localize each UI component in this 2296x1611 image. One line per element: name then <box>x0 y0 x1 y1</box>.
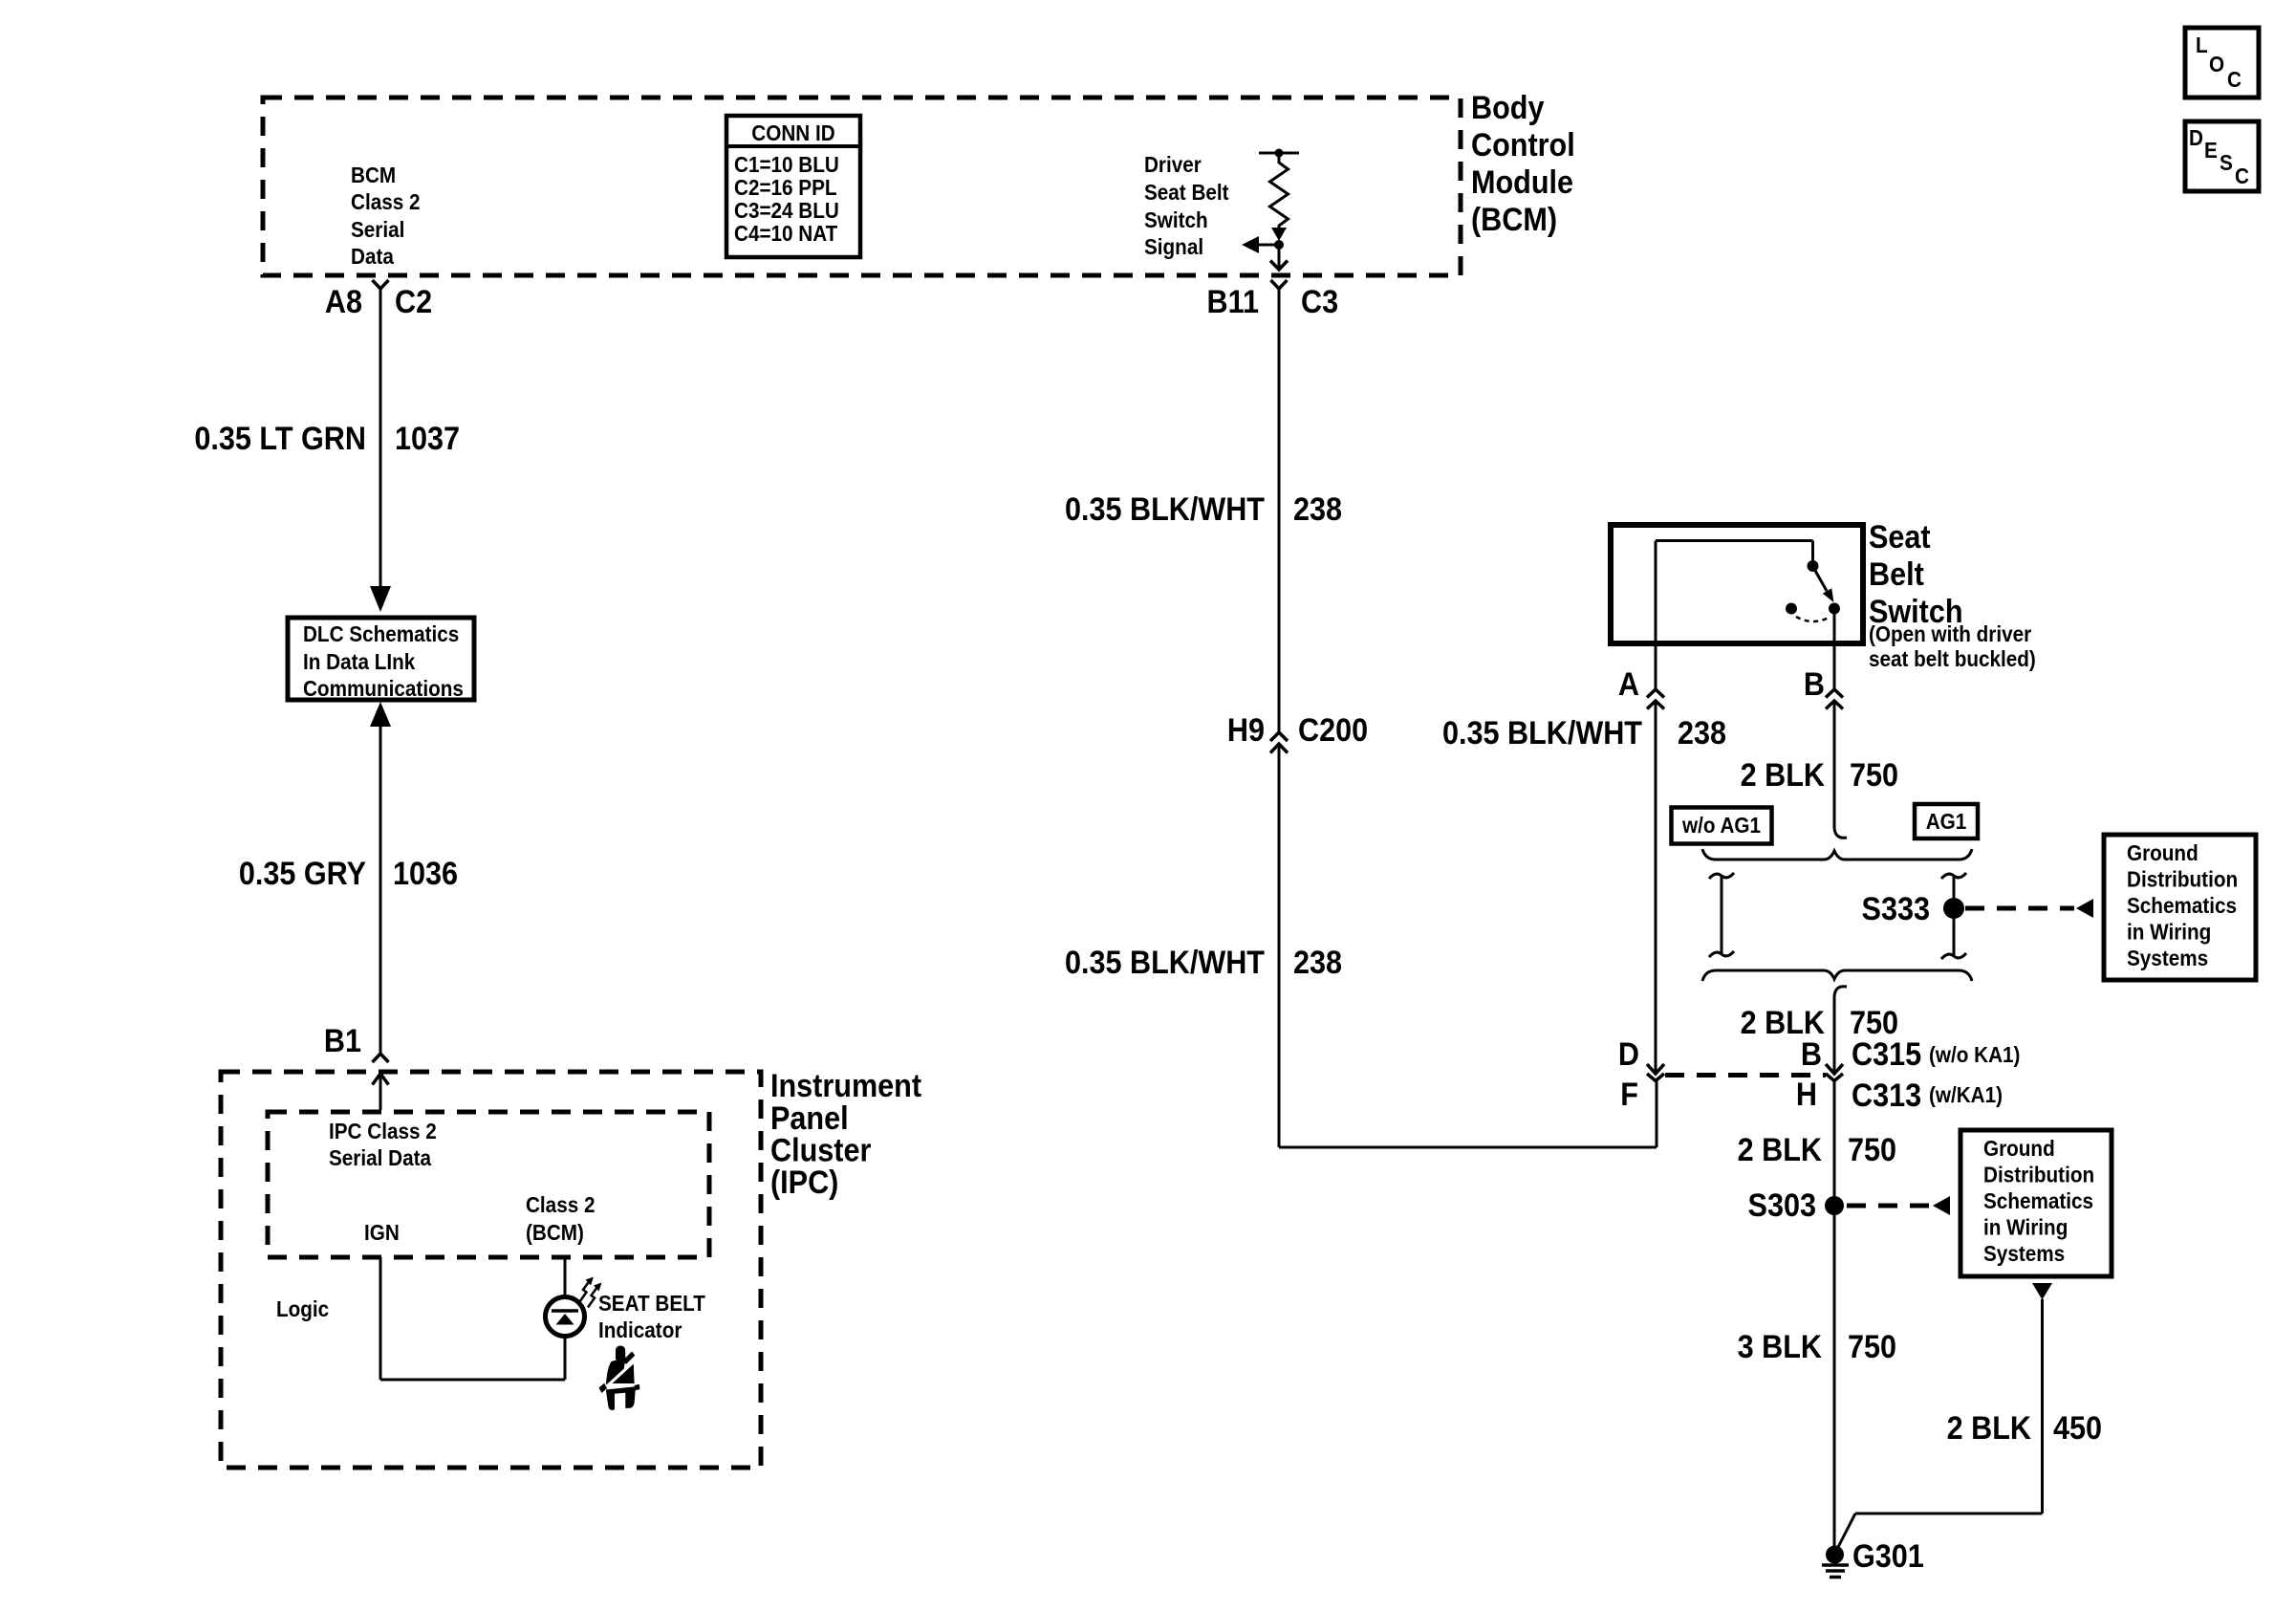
svg-text:Belt: Belt <box>1869 556 1924 593</box>
svg-text:(w/KA1): (w/KA1) <box>1929 1082 2003 1107</box>
svg-text:0.35 LT GRN: 0.35 LT GRN <box>194 421 366 457</box>
svg-text:Instrument: Instrument <box>770 1068 921 1104</box>
svg-text:C3: C3 <box>1301 284 1338 320</box>
svg-text:238: 238 <box>1293 491 1342 528</box>
svg-text:B: B <box>1801 1036 1822 1073</box>
svg-text:SEAT BELT: SEAT BELT <box>598 1291 706 1316</box>
svg-text:H9: H9 <box>1227 712 1265 749</box>
svg-text:(Open with driver: (Open with driver <box>1869 621 2032 646</box>
svg-text:(IPC): (IPC) <box>770 1165 838 1201</box>
svg-text:Data: Data <box>351 244 395 269</box>
svg-text:DLC Schematics: DLC Schematics <box>303 621 459 646</box>
svg-text:C: C <box>2235 163 2249 188</box>
svg-text:IPC Class 2: IPC Class 2 <box>329 1119 437 1143</box>
svg-text:Serial Data: Serial Data <box>329 1145 432 1170</box>
svg-text:Ground: Ground <box>2127 840 2199 865</box>
svg-text:B11: B11 <box>1207 284 1259 320</box>
svg-text:3 BLK: 3 BLK <box>1738 1329 1823 1365</box>
svg-text:in Wiring: in Wiring <box>2127 919 2211 944</box>
svg-text:Driver: Driver <box>1144 152 1202 177</box>
svg-text:750: 750 <box>1850 757 1898 794</box>
svg-text:Systems: Systems <box>2127 946 2208 970</box>
svg-text:B1: B1 <box>324 1023 361 1059</box>
svg-text:Panel: Panel <box>770 1100 849 1137</box>
svg-text:E: E <box>2204 138 2218 163</box>
svg-text:Signal: Signal <box>1144 234 1203 259</box>
svg-text:H: H <box>1796 1077 1817 1113</box>
svg-text:O: O <box>2209 52 2224 76</box>
svg-text:(w/o KA1): (w/o KA1) <box>1929 1042 2020 1067</box>
svg-text:Class 2: Class 2 <box>351 189 420 214</box>
svg-text:Indicator: Indicator <box>598 1317 682 1342</box>
svg-text:Body: Body <box>1471 90 1544 126</box>
svg-text:450: 450 <box>2053 1410 2102 1447</box>
svg-text:C313: C313 <box>1852 1078 1921 1114</box>
svg-text:L: L <box>2196 33 2208 57</box>
svg-text:S: S <box>2220 150 2233 175</box>
svg-text:1036: 1036 <box>393 856 458 892</box>
svg-text:AG1: AG1 <box>1926 809 1967 834</box>
svg-text:0.35 BLK/WHT: 0.35 BLK/WHT <box>1442 715 1642 751</box>
svg-text:Control: Control <box>1471 127 1575 163</box>
svg-text:CONN ID: CONN ID <box>751 120 834 145</box>
svg-text:C2: C2 <box>395 284 432 320</box>
svg-text:Seat: Seat <box>1869 519 1931 555</box>
svg-text:C1=10 BLU: C1=10 BLU <box>734 152 839 177</box>
svg-text:BCM: BCM <box>351 163 396 187</box>
svg-text:A: A <box>1618 666 1639 703</box>
svg-text:S303: S303 <box>1748 1187 1816 1224</box>
svg-text:238: 238 <box>1678 715 1726 751</box>
svg-text:F: F <box>1620 1077 1638 1113</box>
svg-text:Distribution: Distribution <box>2127 866 2238 891</box>
svg-text:C2=16 PPL: C2=16 PPL <box>734 175 837 200</box>
svg-text:750: 750 <box>1848 1132 1896 1168</box>
svg-text:seat belt buckled): seat belt buckled) <box>1869 646 2036 671</box>
svg-text:C200: C200 <box>1298 712 1368 749</box>
svg-text:C315: C315 <box>1852 1036 1921 1073</box>
svg-text:Distribution: Distribution <box>1983 1162 2094 1186</box>
svg-text:In Data LInk: In Data LInk <box>303 649 416 674</box>
svg-text:Serial: Serial <box>351 217 404 242</box>
svg-text:IGN: IGN <box>364 1220 400 1245</box>
svg-text:G301: G301 <box>1852 1538 1924 1575</box>
svg-text:D: D <box>2189 125 2203 150</box>
svg-text:0.35 BLK/WHT: 0.35 BLK/WHT <box>1065 491 1265 528</box>
svg-text:Schematics: Schematics <box>2127 893 2237 918</box>
svg-text:2 BLK: 2 BLK <box>1738 1132 1823 1168</box>
svg-text:C3=24 BLU: C3=24 BLU <box>734 198 839 223</box>
svg-text:2 BLK: 2 BLK <box>1947 1410 2032 1447</box>
svg-text:2 BLK: 2 BLK <box>1741 757 1826 794</box>
svg-text:Seat Belt: Seat Belt <box>1144 180 1229 205</box>
svg-text:Systems: Systems <box>1983 1241 2065 1266</box>
svg-text:Schematics: Schematics <box>1983 1188 2093 1213</box>
svg-text:B: B <box>1804 666 1825 703</box>
svg-text:0.35 BLK/WHT: 0.35 BLK/WHT <box>1065 945 1265 981</box>
svg-text:Class 2: Class 2 <box>526 1192 595 1217</box>
svg-text:Logic: Logic <box>276 1296 329 1321</box>
svg-text:Module: Module <box>1471 164 1573 201</box>
svg-text:(BCM): (BCM) <box>1471 202 1557 238</box>
svg-text:w/o AG1: w/o AG1 <box>1681 813 1761 838</box>
svg-text:A8: A8 <box>325 284 362 320</box>
svg-text:1037: 1037 <box>395 421 460 457</box>
svg-text:in Wiring: in Wiring <box>1983 1214 2068 1239</box>
svg-text:Switch: Switch <box>1144 207 1208 232</box>
svg-text:C: C <box>2227 67 2242 92</box>
svg-text:238: 238 <box>1293 945 1342 981</box>
svg-text:D: D <box>1618 1036 1639 1073</box>
svg-text:750: 750 <box>1848 1329 1896 1365</box>
svg-text:(BCM): (BCM) <box>526 1220 584 1245</box>
svg-text:Cluster: Cluster <box>770 1132 872 1168</box>
svg-text:Communications: Communications <box>303 676 464 701</box>
svg-text:0.35 GRY: 0.35 GRY <box>239 856 367 892</box>
svg-text:C4=10 NAT: C4=10 NAT <box>734 221 838 246</box>
svg-text:Ground: Ground <box>1983 1136 2055 1161</box>
svg-text:S333: S333 <box>1862 891 1930 927</box>
